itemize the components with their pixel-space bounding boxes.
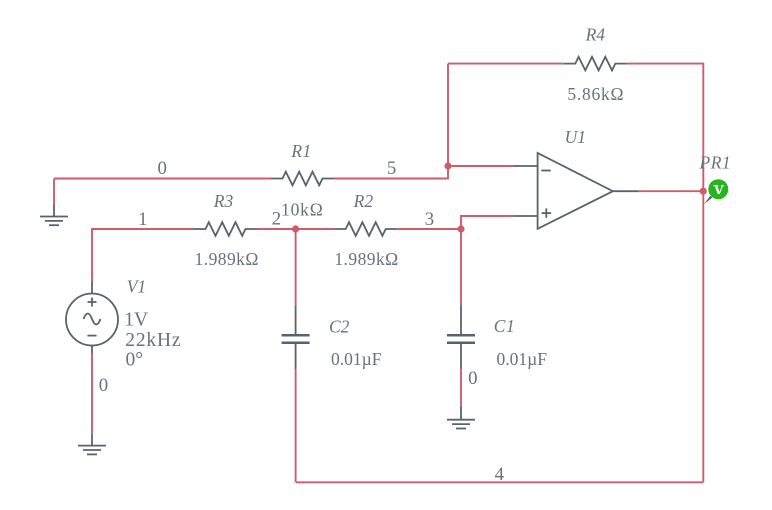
ground (top-left): [40, 204, 68, 225]
svg-text:U1: U1: [565, 127, 586, 147]
probe PR1: [708, 179, 728, 199]
resistor R4: [564, 57, 627, 71]
svg-text:R4: R4: [585, 25, 606, 45]
resistor R1: [271, 172, 334, 186]
svg-text:0.01µF: 0.01µF: [497, 349, 548, 369]
wire bottom net 4: [296, 481, 703, 483]
svg-text:0°: 0°: [126, 349, 144, 370]
op-amp U1 input stubs: [513, 166, 538, 216]
wire net 5 (R1 to op-amp minus, with jog): [334, 166, 513, 179]
junction output node: [700, 188, 707, 195]
svg-text:2: 2: [272, 209, 281, 230]
capacitor C1: [447, 306, 475, 369]
svg-text:4: 4: [495, 464, 505, 485]
wire V1 bottom to ground net 0: [91, 354, 93, 435]
wire C1 bottom to ground: [460, 369, 462, 405]
svg-text:1.989kΩ: 1.989kΩ: [334, 249, 398, 269]
wire R4 left segment: [448, 63, 564, 65]
svg-text:V1: V1: [127, 277, 146, 297]
wire R4 right segment and right-side vertical: [627, 64, 704, 483]
svg-text:R3: R3: [213, 191, 234, 211]
junction node 2: [292, 225, 299, 232]
svg-text:5.86kΩ: 5.86kΩ: [567, 84, 624, 104]
svg-text:R1: R1: [290, 141, 311, 161]
wire ground stub top-left: [53, 179, 55, 205]
svg-text:5: 5: [387, 158, 396, 179]
svg-text:C2: C2: [329, 316, 350, 336]
svg-text:3: 3: [425, 209, 434, 230]
svg-text:0: 0: [468, 368, 477, 389]
op-amp U1: [538, 153, 639, 229]
wire node 3 down to C1: [460, 229, 462, 306]
junction at op-amp minus node: [444, 162, 451, 169]
probe PR1 pointer tail: [704, 196, 712, 204]
probe PR1 V letter: [714, 186, 725, 194]
svg-text:1: 1: [138, 209, 147, 230]
ground (below C1): [447, 406, 475, 429]
svg-text:R2: R2: [353, 191, 374, 211]
resistor R3: [194, 222, 257, 236]
svg-text:PR1: PR1: [699, 153, 732, 173]
resistor R2: [334, 222, 397, 236]
junction node 3: [457, 225, 464, 232]
svg-text:10kΩ: 10kΩ: [281, 199, 323, 219]
wire node 2 down to C2: [295, 229, 297, 306]
svg-text:1.989kΩ: 1.989kΩ: [195, 249, 259, 269]
wire net 1 (V1 to R3): [92, 229, 194, 282]
wire net 2 (R3 to R2): [257, 228, 334, 230]
capacitor C2: [282, 306, 310, 369]
wire net 5 vertical up to R4: [447, 64, 449, 166]
voltage source V1: [66, 282, 118, 354]
wire C2 bottom to net 4: [295, 369, 297, 482]
svg-text:1V: 1V: [124, 310, 148, 331]
svg-text:C1: C1: [494, 316, 515, 336]
svg-text:0: 0: [99, 375, 108, 396]
wire net 0 top-left horizontal: [54, 178, 271, 180]
ground (below V1): [78, 434, 106, 454]
svg-text:0: 0: [158, 158, 167, 179]
svg-text:0.01µF: 0.01µF: [331, 349, 382, 369]
svg-text:22kHz: 22kHz: [125, 330, 181, 351]
wire op-amp output to net 4 vertical: [639, 190, 704, 192]
wire net 3 (R2 to op-amp plus, with jog): [397, 216, 514, 229]
